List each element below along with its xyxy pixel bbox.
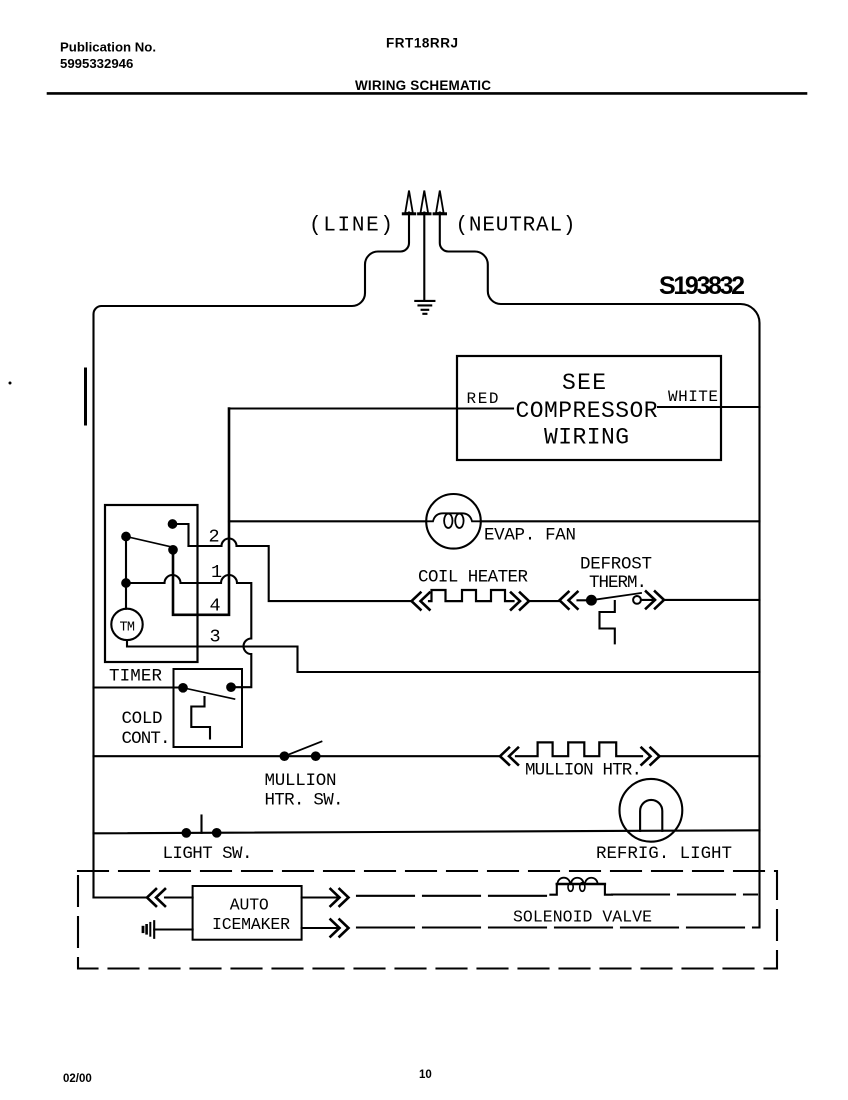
svg-text:3: 3 (210, 627, 221, 648)
svg-text:TM: TM (120, 621, 136, 636)
line input arrow L1 (405, 191, 413, 214)
chevron connector icemaker left (147, 889, 165, 906)
timer terminal labels (109, 527, 222, 687)
defrost therm open contact (633, 596, 641, 604)
svg-text:SEE: SEE (562, 370, 606, 396)
chevron connector mullion left (500, 748, 518, 765)
svg-text:MULLION HTR.: MULLION HTR. (525, 761, 642, 781)
footer page labels (63, 1069, 432, 1085)
timer contact 4 (169, 546, 177, 554)
wire: center ground shaft (423, 213, 425, 301)
svg-text:HTR. SW.: HTR. SW. (265, 791, 344, 811)
defrost therm closed contact (587, 596, 596, 605)
mullion heater element (516, 742, 642, 756)
svg-text:COLD: COLD (122, 709, 163, 729)
wire: dashed bottom run to neutral (357, 926, 760, 928)
defrost therm blade (591, 593, 641, 600)
svg-text:LIGHT SW.: LIGHT SW. (163, 844, 253, 864)
wire: terminal 3 from TM to neutral rail (127, 640, 760, 672)
junction: timer terminal 1 (122, 579, 130, 587)
svg-text:DEFROST: DEFROST (580, 555, 652, 575)
ground input arrow (421, 191, 429, 214)
label (LINE) (309, 215, 745, 301)
neutral input arrow (436, 191, 444, 214)
svg-text:2: 2 (209, 527, 220, 548)
svg-text:TIMER: TIMER (109, 667, 162, 687)
svg-text:COIL HEATER: COIL HEATER (418, 568, 528, 588)
svg-text:ICEMAKER: ICEMAKER (212, 915, 290, 934)
defrost therm bimetal step (600, 601, 615, 643)
timer box (105, 505, 198, 662)
wire: evap fan rail (229, 520, 760, 522)
svg-text:5995332946: 5995332946 (60, 56, 133, 71)
svg-text:(LINE): (LINE) (309, 215, 393, 238)
chevron connector icemaker bottom right (331, 920, 349, 937)
solenoid valve coil (550, 884, 612, 895)
svg-text:THERM.: THERM. (589, 573, 647, 593)
svg-text:Publication No.: Publication No. (60, 40, 156, 55)
cold control bimetal step (191, 697, 210, 739)
icemaker optional enclosure (dashed) (78, 871, 777, 969)
svg-text:02/00: 02/00 (63, 1073, 92, 1085)
ground symbol (415, 301, 434, 314)
wire: light rail (94, 830, 760, 833)
wire: icemaker top output (302, 896, 340, 898)
light switch left contact (183, 829, 191, 837)
svg-text:(NEUTRAL): (NEUTRAL) (456, 215, 576, 238)
coil heater element (429, 590, 514, 601)
svg-text:SOLENOID VALVE: SOLENOID VALVE (513, 908, 652, 927)
svg-text:WIRING SCHEMATIC: WIRING SCHEMATIC (355, 78, 491, 93)
svg-text:4: 4 (210, 596, 221, 617)
svg-text:AUTO: AUTO (230, 896, 269, 915)
svg-text:WHITE: WHITE (668, 388, 718, 406)
wire: feed down to timer contact 4 (173, 409, 229, 615)
wire: dashed solenoid to neutral (612, 893, 757, 895)
header: publication number (60, 36, 491, 94)
cold control right contact (227, 683, 235, 691)
wire: icemaker bottom output (302, 927, 340, 929)
mullion switch left contact (281, 752, 289, 760)
auto icemaker box (193, 886, 302, 940)
svg-text:FRT18RRJ: FRT18RRJ (386, 36, 458, 51)
wire: white compressor to neutral (658, 406, 760, 408)
wire: dashed run to solenoid (357, 895, 550, 897)
light switch actuator (200, 816, 202, 833)
svg-text:WIRING: WIRING (544, 425, 629, 451)
svg-text:COMPRESSOR: COMPRESSOR (516, 398, 658, 424)
evap fan motor (426, 494, 481, 549)
svg-text:CONT.: CONT. (122, 729, 171, 749)
timer switch blade (126, 537, 174, 548)
cold control blade (183, 688, 235, 699)
chevron connector coil heater left (412, 593, 430, 610)
svg-text:10: 10 (419, 1069, 432, 1081)
chevron connector icemaker top right (331, 889, 349, 906)
svg-text:1: 1 (211, 562, 222, 583)
chevron connector defrost right (646, 591, 664, 608)
wire: terminal 2 run to coil heater (with hop) (189, 539, 412, 602)
wire: terminal 1 run to cold control (with hops) (126, 575, 251, 687)
wire: line rail to cold control (94, 686, 180, 688)
svg-text:EVAP. FAN: EVAP. FAN (484, 526, 576, 546)
compressor wiring box (457, 356, 721, 460)
wire: LINE entry to outer box left edge (94, 213, 410, 898)
svg-text:MULLION: MULLION (265, 771, 337, 791)
timer motor TM (111, 609, 142, 640)
wire: red compressor feed (229, 407, 513, 409)
light filament (640, 800, 662, 831)
chevron connector defrost left (560, 592, 578, 609)
cold control box (174, 669, 243, 747)
wire: coil heater to defrost therm (529, 600, 560, 602)
timer terminal 2 contact (169, 520, 177, 528)
svg-text:REFRIG. LIGHT: REFRIG. LIGHT (596, 844, 732, 864)
icemaker ground symbol (153, 921, 155, 938)
svg-text:S193832: S193832 (659, 272, 745, 300)
cold control left contact (179, 684, 187, 692)
chevron connector coil heater right (511, 593, 529, 610)
wire: contact 2 to terminal 2 (173, 524, 189, 546)
timer pivot contact (122, 533, 130, 541)
svg-text:RED: RED (467, 390, 499, 408)
wire: defrost to neutral rail (641, 599, 760, 601)
wire: NEUTRAL entry to outer box right edge (440, 213, 760, 927)
scan artifact left margin (84, 369, 87, 424)
wire: line to icemaker (94, 896, 193, 898)
mullion switch blade (284, 742, 321, 757)
refrigerator light bulb (620, 779, 683, 842)
wire: mullion rail (94, 755, 760, 757)
chevron connector mullion right (642, 748, 660, 765)
wire: pivot down to TM motor (125, 540, 127, 609)
light switch right contact (213, 829, 221, 837)
header rule (48, 92, 806, 95)
wire: icemaker ground lead (154, 928, 192, 930)
mullion switch right contact (312, 752, 320, 760)
